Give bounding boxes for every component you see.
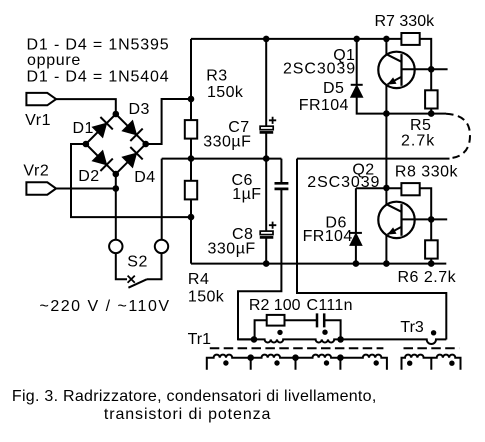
svg-text:~220 V / ~110V: ~220 V / ~110V — [40, 298, 171, 315]
diode D1 — [92, 117, 112, 137]
svg-text:Vr2: Vr2 — [23, 163, 49, 180]
resistor R4 body — [185, 181, 197, 200]
wire S2 left contact stub — [116, 253, 127, 279]
node top rail C7 junction — [263, 36, 270, 43]
wire R6 bottom — [430, 259, 432, 264]
node left rail R3 R4 junction — [188, 155, 195, 162]
wire R8 to right branch down to R6 — [420, 188, 432, 240]
wire dashed jumper around R5 — [446, 114, 470, 159]
terminal Vr2 — [26, 182, 56, 194]
terminal Vr1 — [26, 93, 56, 105]
diode D6 — [350, 233, 362, 246]
transformer Tr3 secondary winding row with taps — [402, 355, 461, 370]
wire D6 branch — [355, 188, 357, 263]
wire left rail down to S2 right terminal — [161, 159, 163, 240]
node Q2 collector R8 junction — [383, 185, 390, 192]
node Q1 emitter D5 junction — [383, 110, 390, 117]
wire bottom rail stub — [431, 263, 446, 265]
polarity dot Tr3 primary winding — [431, 330, 436, 335]
svg-text:150k: 150k — [188, 289, 225, 306]
wire Q2 emitter down — [385, 235, 387, 264]
wire bridge bottom vertex down to S2 left terminal — [115, 174, 117, 240]
node left rail C7 C8 junction — [263, 155, 270, 162]
svg-text:R7 330k: R7 330k — [375, 13, 436, 30]
svg-text:R6 2.7k: R6 2.7k — [398, 269, 457, 286]
resistor R8 body — [401, 183, 419, 195]
svg-text:Tr3: Tr3 — [400, 319, 424, 336]
transistor Q2 — [378, 202, 414, 238]
node Tr1 secondary tap 3 — [337, 354, 344, 361]
switch S2 right terminal circle — [155, 240, 168, 253]
diode D3 — [122, 121, 142, 141]
wire R2 C11 branch — [255, 320, 341, 339]
transistor Q1 — [378, 52, 414, 88]
node Tr1 secondary tap 2 — [292, 354, 299, 361]
node top rail D5 junction — [353, 36, 360, 43]
svg-text:150k: 150k — [207, 84, 244, 101]
wire Q1 base to right rail with stub — [402, 68, 448, 70]
polarity dot Tr1 secondary winding 2 — [274, 360, 279, 365]
wire Q1 emitter to Q2 collector spine — [385, 114, 387, 188]
polarity dot Tr1 secondary winding 4 — [374, 360, 379, 365]
wire Q2 collector vertical — [385, 188, 387, 204]
wire C7 branch — [265, 39, 267, 159]
node R5 bottom junction — [428, 110, 435, 117]
diode D5 — [351, 85, 363, 98]
wire bridge right vertex up to R3 top junction — [146, 99, 191, 144]
svg-text:Vr1: Vr1 — [25, 112, 51, 129]
node bottom rail D6 junction — [353, 260, 360, 267]
capacitor C8 plus sign — [269, 222, 276, 229]
svg-text:D1 - D4 = 1N5404: D1 - D4 = 1N5404 — [27, 68, 170, 85]
switch S2 contact cross — [128, 276, 135, 283]
wire left mid rail — [162, 158, 282, 160]
wire bridge left vertex to lower junction — [71, 144, 191, 217]
svg-text:D4: D4 — [134, 169, 155, 186]
node bridge feed R3 junction — [188, 96, 195, 103]
svg-text:1µF: 1µF — [232, 186, 261, 203]
wire Vr2 to bridge bottom branch — [56, 188, 116, 190]
wire bottom rail — [191, 263, 431, 265]
resistor R6 body — [425, 240, 438, 258]
wire Vr1 to bridge top node — [56, 99, 116, 114]
wire R5 bottom to junction — [430, 109, 432, 114]
node bridge right vertex — [142, 141, 149, 148]
resistor R5 body — [425, 90, 438, 108]
wire bridge diamond edges — [86, 114, 146, 174]
switch S2 lever — [128, 279, 147, 288]
transformer Tr3 core — [404, 347, 460, 349]
svg-text:330µF: 330µF — [203, 134, 251, 151]
svg-text:D3: D3 — [129, 101, 150, 118]
node bottom rail C8 junction — [263, 260, 270, 267]
svg-text:D2: D2 — [78, 168, 99, 185]
wire C8 branch — [265, 159, 267, 264]
svg-text:2SC3039: 2SC3039 — [307, 174, 380, 191]
wire junction stub toward dashed link — [431, 113, 446, 115]
svg-text:oppure: oppure — [27, 52, 81, 69]
polarity dot Tr1 secondary winding 1 — [223, 360, 228, 365]
node bridge top vertex — [113, 111, 120, 118]
svg-text:transistori di potenza: transistori di potenza — [104, 406, 271, 423]
wire R3 R4 branch — [190, 39, 192, 264]
capacitor C8 polarized plates — [260, 231, 274, 237]
capacitor C7 polarized plates — [260, 126, 274, 132]
svg-text:S2: S2 — [127, 254, 148, 271]
capacitor C6 plates — [275, 183, 289, 189]
resistor R2 body — [267, 315, 285, 326]
polarity dot Tr1 primary winding 1 — [277, 330, 282, 335]
svg-text:R3: R3 — [206, 68, 227, 85]
resistor R7 body — [401, 33, 419, 45]
svg-text:D1: D1 — [73, 120, 94, 137]
wire C6 branch down to Tr1 primary — [238, 159, 281, 340]
svg-text:R8 330k: R8 330k — [395, 164, 459, 181]
polarity dot Tr3 secondary winding 1 — [407, 361, 412, 366]
node bottom rail R6 junction — [428, 260, 435, 267]
polarity dot Tr1 primary winding 2 — [322, 330, 327, 335]
node Vr2 junction — [113, 185, 120, 192]
node Q2 base junction — [428, 216, 435, 223]
node Q1 base junction — [428, 66, 435, 73]
svg-text:330µF: 330µF — [208, 240, 256, 257]
resistor R3 body — [185, 120, 197, 139]
svg-text:C111n: C111n — [307, 297, 353, 314]
wire Q2 base with stub — [402, 218, 448, 220]
wire top rail to right corner — [420, 39, 432, 90]
node Tr1 primary left tap — [251, 336, 258, 343]
node Tr1 primary right tap — [337, 336, 344, 343]
wire D6 top link to R8 — [356, 187, 402, 189]
transformer Tr1 secondary winding row with taps — [207, 355, 387, 370]
diode D2 — [92, 151, 112, 171]
wire right rail drop to Tr3 primary — [297, 159, 446, 340]
polarity dot Tr1 secondary winding 3 — [324, 360, 329, 365]
transformer Tr1 core — [210, 347, 384, 349]
polarity dot Tr3 secondary winding 2 — [449, 361, 454, 366]
node Tr1 secondary tap 1 — [247, 354, 254, 361]
node bridge left vertex — [83, 141, 90, 148]
wire D5 branch and emitter junction line — [357, 39, 432, 114]
svg-text:2.7k: 2.7k — [401, 132, 435, 149]
wire S2 right contact stub — [147, 253, 162, 279]
node top rail Q1 collector junction — [383, 36, 390, 43]
svg-text:Fig. 3. Radrizzatore, condensa: Fig. 3. Radrizzatore, condensatori di li… — [12, 388, 377, 405]
wire top supply rail — [191, 38, 401, 40]
switch S2 left terminal circle — [109, 240, 122, 253]
svg-text:2SC3039: 2SC3039 — [283, 61, 356, 78]
diode D4 — [122, 147, 142, 167]
svg-text:D1 - D4 = 1N5395: D1 - D4 = 1N5395 — [27, 36, 170, 53]
wire Q1 emitter down — [385, 85, 387, 114]
capacitor C11 plates — [317, 313, 324, 327]
node negative line R4 junction — [188, 214, 195, 221]
svg-text:FR104: FR104 — [299, 97, 349, 114]
svg-text:Tr1: Tr1 — [188, 331, 212, 348]
node bottom rail Q2 emitter junction — [383, 260, 390, 267]
capacitor C7 plus sign — [269, 117, 276, 124]
wire right mid rail to dashed link — [297, 158, 450, 160]
node bridge bottom vertex — [113, 171, 120, 178]
transformer Tr1 and Tr3 primary winding row — [238, 339, 446, 344]
svg-text:FR104: FR104 — [303, 228, 353, 245]
svg-text:D5: D5 — [323, 80, 344, 97]
wire Q1 collector to top rail — [385, 39, 387, 54]
svg-text:R4: R4 — [188, 271, 209, 288]
svg-text:R2 100: R2 100 — [249, 297, 301, 314]
